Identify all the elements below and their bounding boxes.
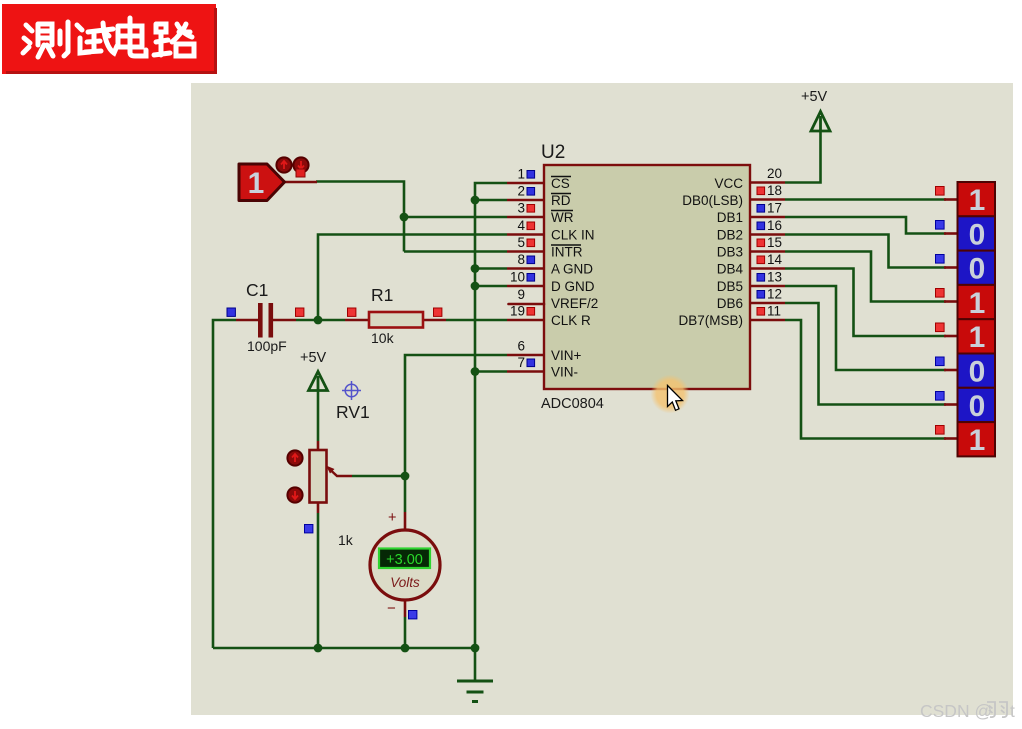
logicstate toggle buttons: [276, 157, 308, 172]
IC U2 ADC0804 body: [544, 165, 750, 389]
svg-text:ADC0804: ADC0804: [541, 396, 604, 412]
+5V label (top right): [801, 89, 828, 105]
svg-text:12: 12: [767, 287, 782, 302]
wire: DB6 to probe7: [785, 303, 946, 405]
svg-text:0: 0: [969, 253, 986, 286]
wire: to pin5 INTR: [404, 250, 507, 253]
watermark CSDN: [920, 701, 992, 721]
svg-text:20: 20: [767, 166, 782, 181]
wire: to pin8 A GND: [475, 267, 507, 270]
RV1 value label 1k: [338, 532, 354, 548]
pin 9 VREF/2 stub: [509, 303, 545, 306]
pin 8 A GND stub: [507, 267, 544, 270]
svg-text:VIN-: VIN-: [551, 365, 578, 380]
U2 active-low overlines: [551, 177, 581, 246]
svg-text:9: 9: [517, 287, 525, 302]
svg-text:5: 5: [517, 235, 525, 250]
svg-text:DB6: DB6: [717, 296, 743, 311]
wire: RV1 bottom to bottom bus: [317, 513, 320, 648]
mouse cursor: [668, 386, 683, 411]
svg-text:2: 2: [517, 184, 525, 199]
voltmeter top pin: [404, 512, 407, 531]
watermark t: [1010, 701, 1015, 721]
svg-text:−: −: [387, 600, 396, 617]
svg-text:VREF/2: VREF/2: [551, 296, 598, 311]
voltmeter bottom pin: [404, 599, 407, 617]
wire: DB7 to probe8: [785, 320, 946, 439]
pin 14 DB4 stub: [750, 267, 785, 270]
svg-text:R1: R1: [371, 285, 393, 305]
svg-text:INTR: INTR: [551, 245, 583, 260]
wire: +5V arrow stem to RV1 top: [317, 390, 320, 441]
wire: node to voltmeter +: [404, 476, 407, 512]
wire: VIN+ vertical and to pin6: [405, 355, 507, 476]
resistor R1 body: [369, 312, 423, 328]
wire: to pin10 D GND: [475, 285, 507, 288]
svg-text:WR: WR: [551, 210, 574, 225]
resistor R1 pin wires: [345, 319, 446, 322]
node: voltmeter on bus: [401, 644, 410, 653]
watermark 羽 glyph: [987, 702, 1007, 717]
RV1 wiper arrow: [326, 466, 352, 477]
logic input pin wire (maroon): [284, 181, 317, 184]
U2 right pin labels: [678, 176, 743, 328]
pin 3 WR stub: [507, 216, 544, 219]
电: [118, 18, 142, 47]
svg-text:19: 19: [510, 304, 525, 319]
pin 12 DB6 stub: [750, 302, 785, 305]
pin 6 VIN+ stub: [507, 354, 544, 357]
wire: bottom ground bus: [213, 647, 475, 650]
wire: C1 left to left rail: [213, 320, 236, 648]
pin 5 INTR stub: [507, 250, 544, 253]
svg-text:Volts: Volts: [390, 575, 420, 590]
svg-text:16: 16: [767, 218, 782, 233]
wire: ground bus vertical: [475, 183, 507, 648]
svg-text:VCC: VCC: [714, 176, 743, 191]
U2 left pin state squares: [527, 171, 535, 367]
pin 20 VCC stub: [750, 181, 785, 184]
svg-text:DB5: DB5: [717, 279, 743, 294]
svg-text:100pF: 100pF: [247, 338, 287, 354]
svg-text:+5V: +5V: [801, 89, 828, 105]
logic probe state squares: [936, 187, 945, 435]
svg-text:15: 15: [767, 235, 782, 250]
logicstate input "1": [239, 164, 285, 201]
svg-text:CSDN @: CSDN @: [920, 701, 992, 721]
wire: DB3 to probe4: [785, 252, 946, 302]
schematic background: [191, 83, 1013, 715]
svg-text:t: t: [1010, 701, 1015, 721]
wire: CLK IN from RC node: [318, 235, 507, 321]
voltmeter + label: [388, 510, 396, 526]
svg-text:1: 1: [969, 184, 986, 217]
+5V power arrow (top right): [811, 112, 830, 132]
U2 left pin labels: [551, 176, 598, 380]
svg-text:RD: RD: [551, 193, 571, 208]
svg-text:1: 1: [248, 167, 265, 200]
U2 reference label: [541, 142, 565, 163]
cursor highlight: [651, 375, 690, 414]
svg-text:10: 10: [510, 270, 525, 285]
pin 1 CS stub: [507, 182, 544, 185]
RV1 top pin (maroon): [317, 441, 320, 450]
voltmeter Volts label: [390, 575, 420, 590]
svg-text:0: 0: [969, 218, 986, 251]
U2 right pin numbers: [767, 166, 783, 319]
wire: to pin7 VIN-: [475, 370, 507, 373]
pin 2 RD stub: [507, 199, 544, 202]
pin 15 DB3 stub: [750, 250, 785, 253]
svg-text:DB2: DB2: [717, 228, 743, 243]
node: pin2 on ground bus: [471, 196, 480, 205]
svg-text:7: 7: [517, 355, 525, 370]
ground: [457, 681, 493, 702]
node: wiper/VIN+/voltmeter: [401, 472, 410, 481]
logicstate state square: [296, 169, 305, 177]
svg-text:+5V: +5V: [300, 350, 327, 366]
potentiometer RV1 body: [310, 450, 327, 503]
svg-text:8: 8: [517, 252, 525, 267]
node: ground stem on bus: [471, 644, 480, 653]
title text 测试电路 (stroke approximation): [23, 18, 194, 57]
wire: DB5 to probe6: [785, 286, 946, 370]
pin 11 DB7 stub: [750, 319, 785, 322]
pin 4 CLK IN stub: [507, 233, 544, 236]
svg-text:1k: 1k: [338, 532, 354, 548]
svg-text:RV1: RV1: [336, 402, 370, 422]
svg-text:D GND: D GND: [551, 279, 595, 294]
wire: VCC pin20 to +5V: [785, 130, 821, 183]
wires (green): [213, 130, 946, 680]
pin 19 CLK R stub: [507, 319, 544, 322]
node: RV1 bottom on bus: [314, 644, 323, 653]
pin 7 VIN- stub: [507, 370, 544, 373]
wire: branch to pin3 WR: [404, 216, 507, 219]
svg-text:CS: CS: [551, 176, 570, 191]
voltmeter state square (blue): [409, 611, 417, 619]
U2 right pin state squares: [757, 187, 765, 315]
C1 value label 100pF: [247, 338, 287, 354]
svg-text:1: 1: [517, 167, 525, 182]
wire: R1 right to CLK R pin19: [446, 319, 507, 322]
svg-text:1: 1: [969, 287, 986, 320]
voltmeter LCD display +3.00: [379, 549, 430, 569]
svg-text:DB0(LSB): DB0(LSB): [682, 193, 743, 208]
svg-text:+: +: [388, 510, 396, 526]
RV1 reference label: [336, 402, 370, 422]
svg-text:CLK R: CLK R: [551, 313, 591, 328]
svg-text:0: 0: [969, 390, 986, 423]
capacitor C1 plates: [258, 303, 273, 338]
svg-text:14: 14: [767, 252, 783, 267]
wire: DB2 to probe3: [785, 235, 946, 268]
R1 value label 10k: [371, 330, 395, 346]
pin 10 D GND stub: [507, 285, 544, 288]
logic probe pin stubs: [944, 200, 958, 439]
svg-text:1: 1: [969, 321, 986, 354]
svg-text:17: 17: [767, 201, 782, 216]
RV1 bottom pin (maroon): [317, 503, 320, 514]
pin 17 DB1 stub: [750, 216, 785, 219]
svg-text:18: 18: [767, 183, 782, 198]
svg-text:C1: C1: [246, 280, 268, 300]
C1 reference label: [246, 280, 268, 300]
U2 left pin numbers: [510, 167, 526, 371]
svg-text:+3.00: +3.00: [386, 552, 423, 568]
svg-text:A GND: A GND: [551, 262, 593, 277]
wire: DB0 to probe1: [785, 198, 946, 201]
R1 reference label: [371, 285, 393, 305]
svg-text:DB7(MSB): DB7(MSB): [678, 313, 743, 328]
voltmeter body: [370, 530, 440, 600]
试: [77, 25, 90, 53]
node: RC clock node: [314, 316, 323, 325]
svg-text:VIN+: VIN+: [551, 348, 582, 363]
svg-text:1: 1: [969, 424, 986, 457]
svg-text:11: 11: [767, 304, 781, 319]
wire: wiper to VIN+ node: [352, 475, 405, 478]
title banner red box: [2, 4, 217, 74]
svg-text:6: 6: [517, 339, 525, 354]
wire: DB1 to probe2: [785, 217, 946, 234]
wire: ground stem: [474, 648, 477, 680]
wire: C1 right to node: [296, 319, 345, 322]
wire: to pin2 RD: [475, 199, 507, 202]
U2 left pin stubs: [507, 183, 544, 372]
svg-text:0: 0: [969, 356, 986, 389]
logic probe digits: [969, 184, 986, 457]
node: input/WR branch: [400, 213, 409, 222]
svg-text:3: 3: [517, 201, 525, 216]
svg-text:CLK IN: CLK IN: [551, 228, 595, 243]
pin 16 DB2 stub: [750, 233, 785, 236]
svg-text:13: 13: [767, 270, 782, 285]
junction dots: [314, 196, 480, 653]
net state squares near C1/R1: [227, 308, 442, 316]
wire: voltmeter - to bottom bus: [404, 617, 407, 648]
+5V label (left): [300, 350, 327, 366]
svg-text:U2: U2: [541, 142, 565, 163]
node: pin10 on ground bus: [471, 282, 480, 291]
origin crosshair marker: [342, 381, 361, 400]
pin 13 DB5 stub: [750, 285, 785, 288]
U2 value label ADC0804: [541, 396, 604, 412]
U2 right pin stubs: [750, 183, 785, 321]
voltmeter - label: [387, 600, 396, 617]
pin 18 DB0 stub: [750, 198, 785, 201]
svg-text:DB4: DB4: [717, 262, 744, 277]
+5V power arrow (left, above RV1): [309, 372, 328, 391]
RV1 toggle buttons: [287, 450, 302, 502]
路: [154, 24, 170, 55]
wire: logic input to staircase: [316, 182, 404, 252]
svg-text:DB3: DB3: [717, 245, 743, 260]
svg-text:4: 4: [517, 218, 525, 233]
svg-text:DB1: DB1: [717, 210, 743, 225]
RV1 state square (blue): [305, 525, 313, 533]
wire: DB4 to probe5: [785, 269, 946, 337]
测: [23, 25, 32, 53]
logic probe display column: [958, 182, 996, 456]
capacitor C1 pin wires: [236, 319, 296, 322]
svg-text:10k: 10k: [371, 330, 395, 346]
node: pin7 on ground bus: [471, 367, 480, 376]
node: pin8 on ground bus: [471, 264, 480, 273]
